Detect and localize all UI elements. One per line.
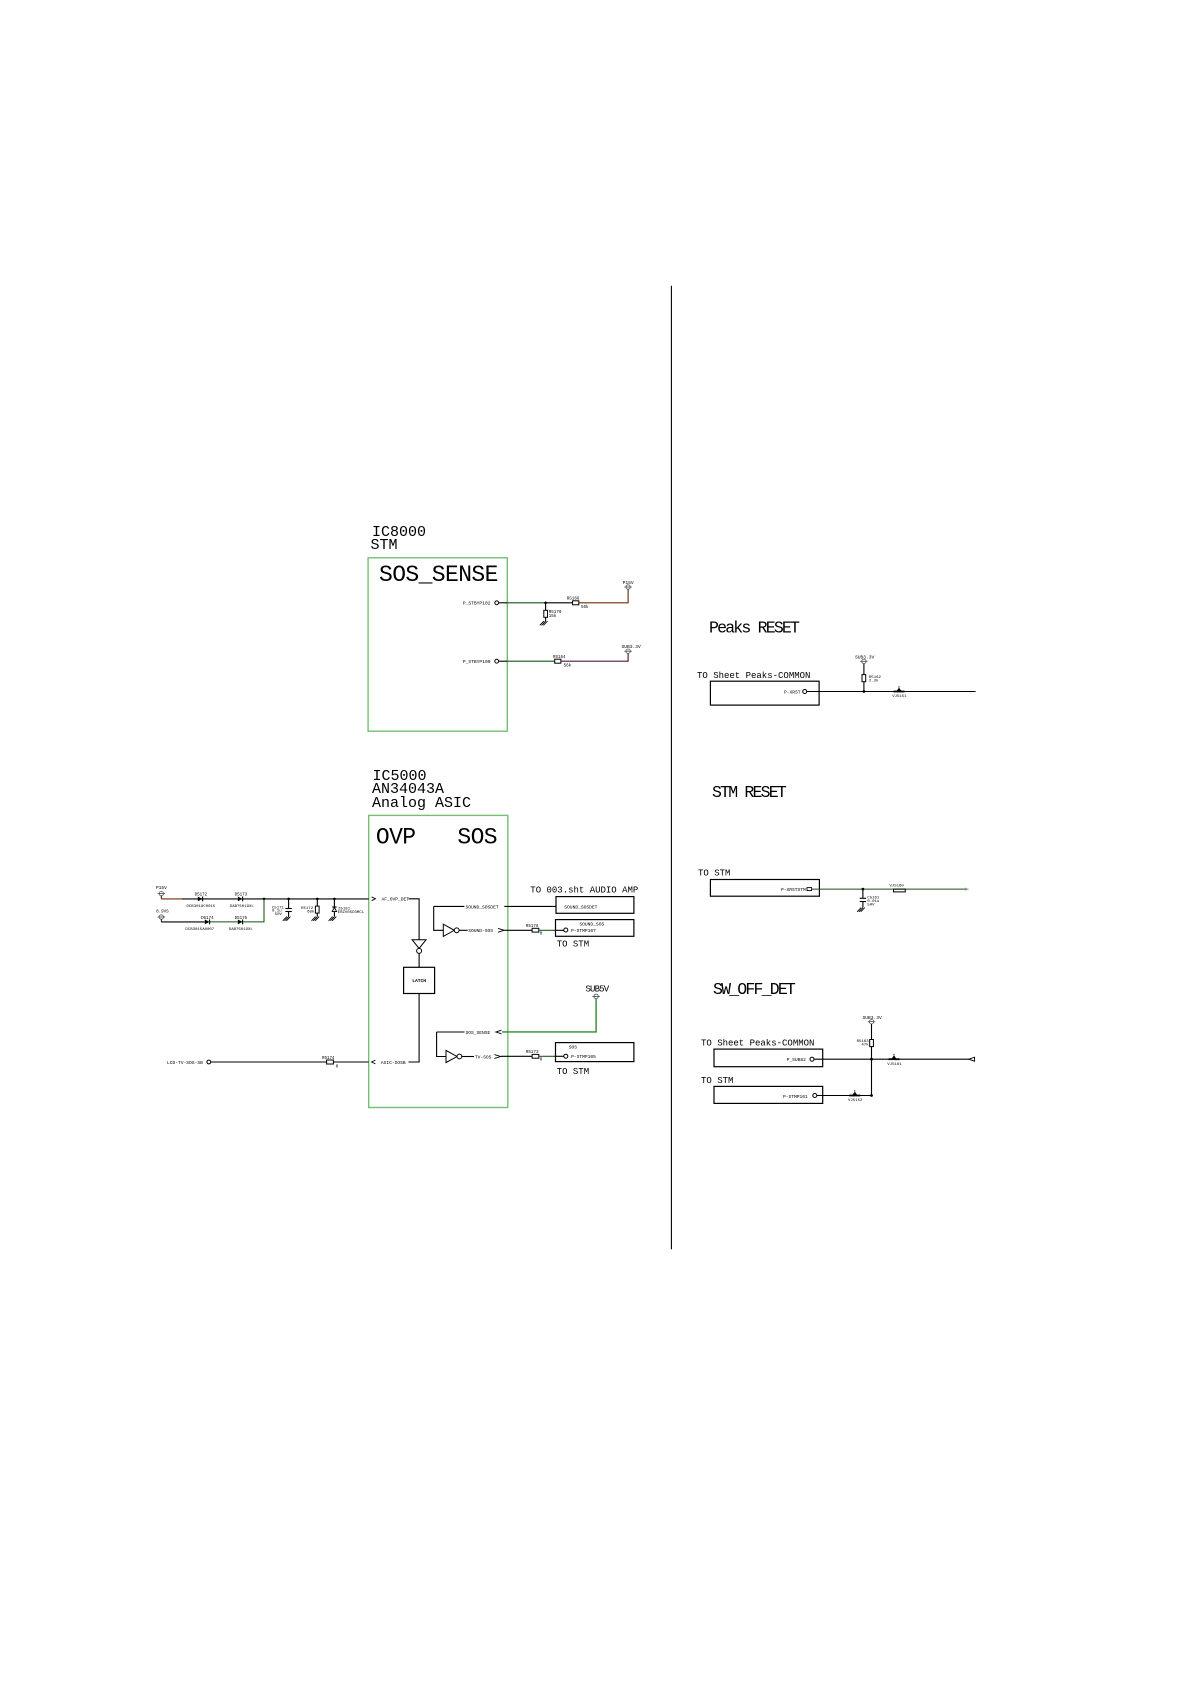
svg-text:RS164: RS164 [553,656,566,660]
ground [329,917,337,921]
wire [210,921,238,923]
svg-text:P_STBYP102: P_STBYP102 [463,601,491,607]
IC8000 STM block outline [368,558,507,731]
svg-text:50V: 50V [867,904,875,908]
svg-text:D5172: D5172 [195,893,208,897]
wire [545,603,547,611]
test point VJ5161 [887,1054,902,1067]
inverter (OVP latch input) [412,940,426,954]
svg-text:P-STMP107: P-STMP107 [571,928,596,934]
power SUB5V [586,985,610,999]
diode D5174 [185,917,214,932]
wire [504,905,556,907]
resistor R5162 [862,664,882,692]
svg-text:SOS: SOS [569,1045,578,1051]
wire [505,929,532,931]
wire [507,660,554,662]
resistor R5173 [526,1051,543,1062]
pin TV-SOS arrow [494,1055,500,1059]
power P15V [623,580,634,589]
test point VJ5152 [848,1090,863,1103]
svg-text:TO Sheet Peaks-COMMON: TO Sheet Peaks-COMMON [701,1039,814,1049]
node junction [333,898,336,901]
svg-text:DAB75019XL: DAB75019XL [230,905,255,909]
node LCD-TV-SOS-SB [167,1060,211,1066]
svg-text:TO STM: TO STM [557,1067,589,1077]
wire [243,899,264,922]
wire [434,906,444,930]
wire [871,1059,873,1095]
wire [459,929,468,931]
svg-text:RS166: RS166 [567,598,580,602]
pin SOS_SENSE arrow [496,1030,502,1034]
svg-text:56k: 56k [581,605,589,610]
node junction [287,898,290,901]
zener Z5181 [332,899,365,917]
resistor R5170 [544,610,562,619]
svg-text:P-XRSTSTM: P-XRSTSTM [781,887,806,893]
svg-text:Analog ASIC: Analog ASIC [372,795,471,812]
ground [540,621,548,625]
wire [501,1055,532,1057]
resistor R5176 [526,925,543,936]
wire [434,905,465,907]
pin P_STBYP100 circle [495,659,499,663]
pin ASIC-SOSB arrow [372,1060,376,1064]
svg-text:15k: 15k [549,614,557,619]
wire [817,1095,872,1097]
IC5000 analog ASIC block outline [369,815,508,1107]
svg-text:P_STBYP100: P_STBYP100 [463,659,491,665]
svg-text:SOUND-SOS: SOUND-SOS [468,928,493,934]
wire [539,1055,555,1057]
svg-text:LCD-TV-SOS-SB: LCD-TV-SOS-SB [167,1060,203,1066]
test point VJ5151 [892,686,907,699]
resistor RS164 [553,656,572,668]
svg-text:50V: 50V [275,913,283,917]
ground [283,917,291,921]
svg-text:DCB3015A0007: DCB3015A0007 [185,928,214,932]
node junction [316,898,319,901]
wire [437,1032,446,1057]
capacitor C5171 [272,899,292,917]
power 0.9VS [156,911,169,922]
svg-text:TO STM: TO STM [698,869,730,879]
svg-text:SOUND_SOS: SOUND_SOS [579,921,604,927]
jumper VJ5160 [889,885,905,892]
wire [418,953,420,967]
svg-text:68k: 68k [307,909,315,914]
wire [507,602,545,604]
svg-text:SOS_SENSE: SOS_SENSE [466,1030,491,1036]
capacitor C5161 [860,889,880,908]
svg-text:SOUND_SOSDET: SOUND_SOSDET [466,904,499,910]
svg-text:R5176: R5176 [526,925,539,929]
ground [312,917,320,921]
wire [579,589,628,603]
wire [546,602,573,604]
pin AF_OVP_DET arrow [372,897,376,901]
svg-text:SOS: SOS [457,825,497,851]
wire [182,898,238,900]
pin P_STBYP102 circle [495,601,499,605]
wire [807,691,976,693]
inverter (SOUND-SOS) [443,924,459,936]
wire [561,653,628,661]
wire [409,994,420,1063]
svg-text:D5175: D5175 [235,917,248,921]
resistor R5163 [857,1024,874,1059]
pin SOUND-SOS arrow [498,928,504,932]
diode D5173 [230,893,255,909]
power SUB3.3V [622,644,642,653]
power P15V (OVP input) [156,885,167,899]
svg-text:0.9VS: 0.9VS [156,911,169,915]
svg-text:STM: STM [371,537,398,554]
off-sheet box P-XRSTSTM [710,880,819,897]
wire [161,898,182,900]
svg-text:SOS_SENSE: SOS_SENSE [379,562,498,588]
wire [499,660,508,662]
wire [161,921,205,923]
svg-text:D5174: D5174 [201,917,214,921]
svg-text:SUB3.3V: SUB3.3V [622,644,642,650]
svg-text:Peaks RESET: Peaks RESET [709,619,800,638]
svg-text:SUB5V: SUB5V [586,985,610,995]
wire [539,929,555,931]
resistor R5172 [301,899,319,917]
junction [544,602,547,605]
off-sheet box SOUND_SOS P-STMP107 [556,920,634,937]
off-sheet box SOS P-STMP105 [556,1043,634,1062]
svg-text:D5173: D5173 [235,893,248,897]
svg-text:TO 003.sht AUDIO AMP: TO 003.sht AUDIO AMP [530,886,638,896]
power SUB3.3V [855,655,875,664]
wire [812,888,968,890]
svg-text:TO STM: TO STM [557,939,589,949]
svg-text:AF_OVP_DET: AF_OVP_DET [382,897,410,903]
svg-text:VJ5151: VJ5151 [892,695,907,699]
wire [499,602,508,604]
resistor RS166 [567,598,589,610]
svg-text:R5174: R5174 [322,1057,335,1061]
svg-text:LATCH: LATCH [412,978,426,984]
inverter (TV-SOS) [446,1050,462,1062]
diode D5172 [187,893,216,909]
svg-text:TO Sheet Peaks-COMMON: TO Sheet Peaks-COMMON [697,671,810,681]
svg-text:ERZV05D3MCL: ERZV05D3MCL [338,911,365,915]
off-sheet tail mark [965,888,968,890]
svg-text:P-XRST: P-XRST [784,690,801,696]
resistor R5174 [322,1057,339,1069]
svg-text:VJ5161: VJ5161 [887,1063,902,1067]
svg-text:SW_OFF_DET: SW_OFF_DET [713,980,796,999]
svg-text:DAB75019XL: DAB75019XL [229,928,254,932]
svg-text:SUB3.3V: SUB3.3V [863,1015,883,1021]
wire [814,1058,969,1060]
diode D5175 [229,917,254,932]
svg-text:TO STM: TO STM [701,1076,733,1086]
power SUB3.3V [863,1015,883,1024]
wire [243,898,369,900]
wire [462,1056,474,1058]
junction [863,690,866,693]
wire [409,899,420,940]
svg-text:P15V: P15V [623,580,634,586]
svg-text:SOUND_SOSDET: SOUND_SOSDET [564,904,597,910]
latch block [404,967,435,993]
sheet divider line [670,286,672,1250]
svg-text:P15V: P15V [156,885,167,891]
wire [333,1061,368,1063]
ground [857,908,865,912]
svg-text:OVP: OVP [376,825,416,851]
wire [545,617,547,621]
off-sheet box P-STMP101 [714,1086,823,1103]
svg-text:TV-SOS: TV-SOS [475,1054,492,1060]
svg-text:P_SUB82: P_SUB82 [787,1057,807,1063]
svg-text:47k: 47k [861,1042,869,1047]
svg-text:ASIC-SOSB: ASIC-SOSB [381,1060,406,1066]
svg-text:P-STMP101: P-STMP101 [783,1094,808,1100]
svg-text:VJ5160: VJ5160 [889,885,904,889]
wire [502,999,596,1032]
junction [870,1058,873,1061]
off-sheet box P-XRST [710,681,819,705]
svg-text:DCB3019C0015: DCB3019C0015 [187,905,216,909]
wire [211,1061,327,1063]
junction [862,888,865,891]
svg-text:P-STMP105: P-STMP105 [571,1054,596,1060]
svg-text:SUB3.3V: SUB3.3V [855,655,875,661]
junction [870,1094,873,1097]
svg-text:2.2k: 2.2k [869,678,879,683]
wire [437,1031,465,1033]
off-sheet box P_SUB82 [714,1049,823,1067]
off-sheet arrow [969,1057,975,1061]
svg-text:STM RESET: STM RESET [712,783,787,802]
svg-text:56k: 56k [564,664,572,669]
svg-text:R5173: R5173 [526,1051,539,1055]
svg-text:VJ5152: VJ5152 [848,1099,863,1103]
node junction [263,898,266,901]
off-sheet box SOUND_SOSDET [556,897,634,914]
